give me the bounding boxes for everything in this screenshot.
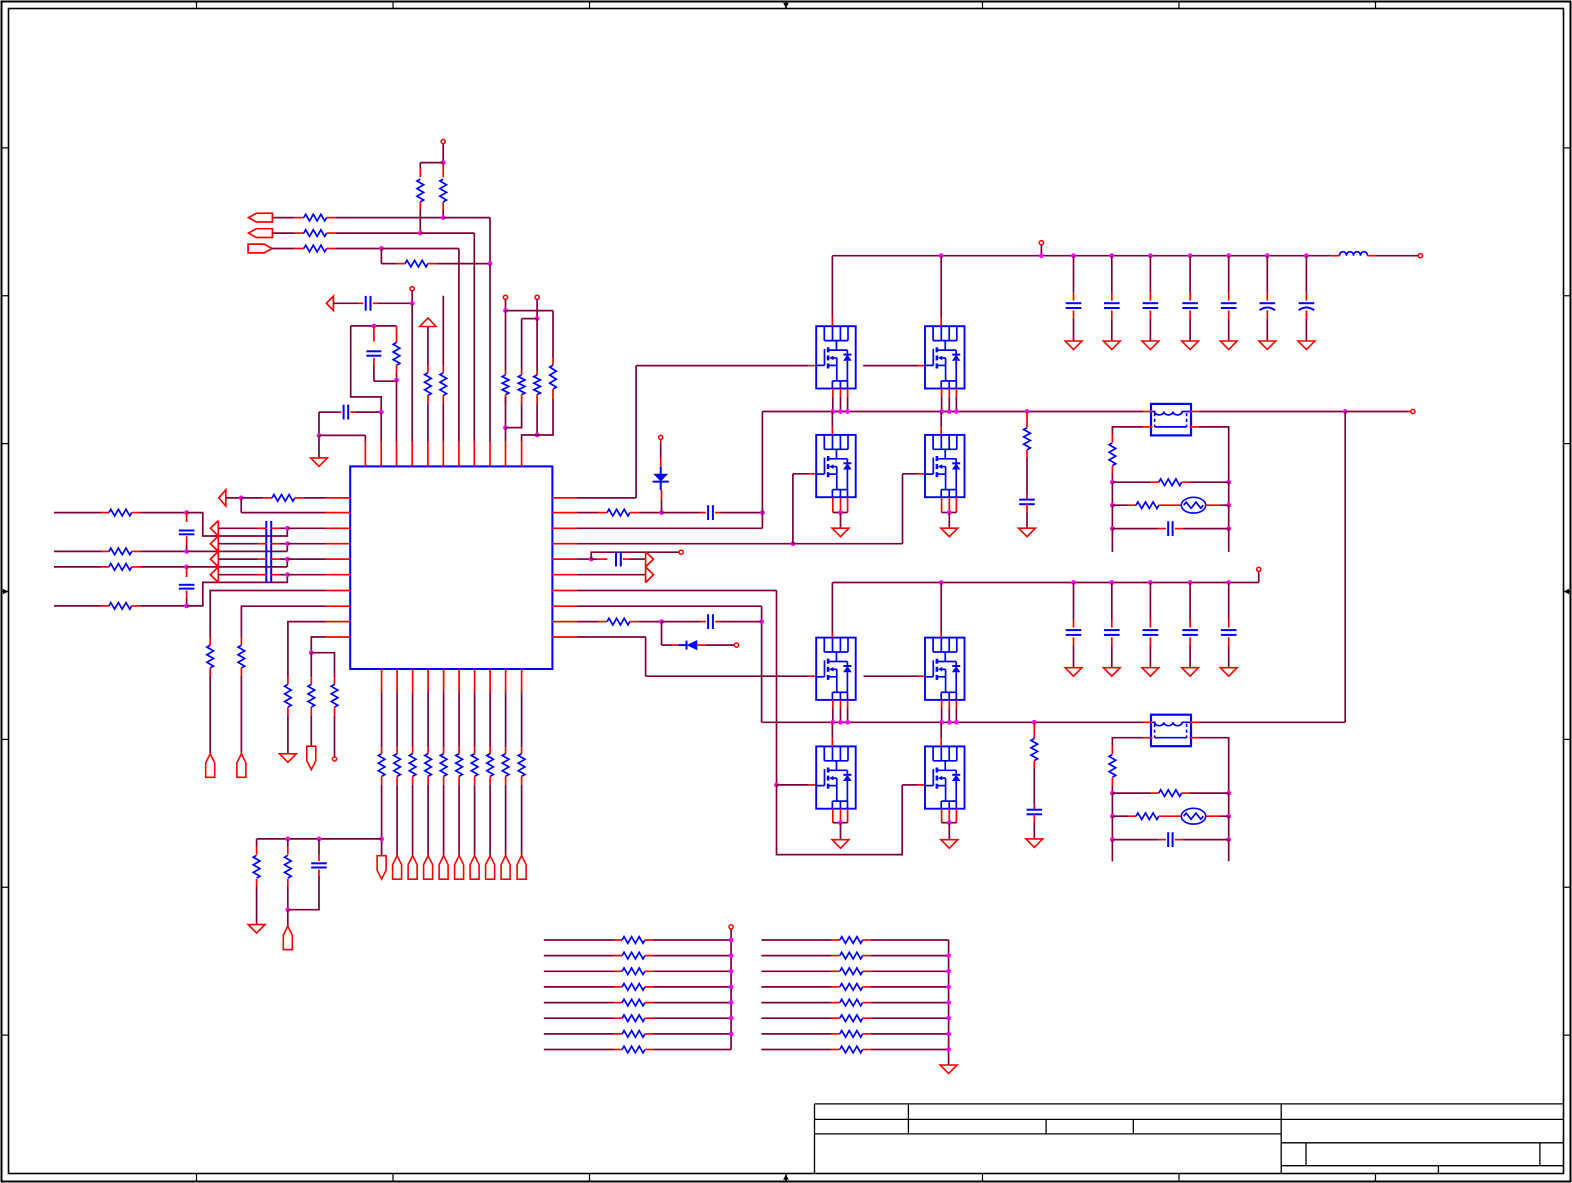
resistor R15 [109, 548, 132, 555]
wire Q7 bar to ground [840, 823, 842, 840]
node Q3 source bar [838, 510, 843, 515]
node row3 junction [379, 246, 384, 251]
wire snub2 col drop 2 [1111, 816, 1113, 839]
transistor Q2 [925, 326, 965, 388]
wire snubber1 leg [1026, 412, 1028, 428]
wire pin R9 to R37 [577, 621, 598, 623]
resistor R17 [109, 603, 132, 610]
wire R17 to node [132, 605, 141, 607]
wire R37 to node [630, 621, 639, 623]
wire C26 right [1175, 839, 1183, 841]
wire MOSFET source pin [948, 389, 950, 397]
wire riser to IC pin 2 [380, 412, 382, 441]
ground under C14 [1182, 341, 1199, 350]
wire R12 bottom to node B2 [536, 395, 538, 405]
wire snub left leg [1111, 435, 1113, 443]
wire array2 row 1 to bus [863, 939, 871, 941]
wire R28 to port P12 [443, 776, 445, 784]
transistor Q8 [925, 746, 965, 808]
wire snub row2 left [1112, 504, 1128, 506]
wire MOSFET source pin row2 [847, 700, 849, 708]
wire R23 to no-connect [334, 707, 336, 715]
wire T1 secondary left [1143, 426, 1153, 428]
node Q8 source bar [947, 820, 952, 825]
node R35/C7 [285, 907, 290, 912]
wire RV2 right [1206, 815, 1220, 817]
wire pin R8 to bottom source row riser [577, 605, 762, 607]
wire snub2 col ends [1111, 840, 1113, 862]
ground G2 [280, 754, 297, 763]
wire C8 to riser node [715, 512, 720, 514]
node source pin row2 [954, 720, 959, 725]
wire array1 row 8 to bus [645, 1049, 653, 1051]
port P15 (bullet) [486, 856, 495, 880]
capacitor C3 [343, 405, 345, 420]
node row B [184, 549, 189, 554]
node row A [184, 510, 189, 515]
wire array2 row 4 to bus [863, 986, 871, 988]
wire snub col ends [1111, 529, 1113, 552]
wire cap C13 leg [1149, 256, 1151, 293]
wire R9 to IC pin 6 [442, 396, 444, 404]
no-connect under R23 [332, 757, 336, 761]
resistor R9 [440, 373, 447, 396]
wire R11 bottom to node A2 [521, 395, 523, 405]
wire input row B [54, 550, 101, 552]
node source pin row2 [947, 720, 952, 725]
node array1 row 3 [729, 969, 734, 974]
wire R18 to IC pin L1 [295, 497, 304, 499]
ground under C24 [1182, 668, 1199, 677]
wire cap C14 leg [1189, 256, 1191, 293]
wire R45 to RV2 [1159, 815, 1182, 817]
node Q7 source bar [838, 820, 843, 825]
resistor R10 [502, 375, 509, 395]
node cap bank C23 [1148, 580, 1153, 585]
ground under C21 [1065, 668, 1082, 677]
wire zener top to no-connect [660, 440, 662, 444]
node source pin [830, 409, 835, 414]
resistor R12 [534, 375, 541, 395]
wire IC bottom pin 7 to R30 [474, 693, 476, 748]
wire snub row1 [1112, 481, 1151, 483]
node cap bank C12 [1109, 253, 1114, 258]
wire R31 to port P15 [489, 776, 491, 784]
transistor Q5 [816, 638, 856, 700]
node source pin [845, 409, 850, 414]
node array2 row 6 [946, 1016, 951, 1021]
wire C14 to ground [1189, 310, 1191, 318]
port triangle above IC [326, 296, 333, 310]
ground under C22 [1103, 668, 1120, 677]
wire to Q7 gate [777, 784, 809, 786]
resistor R25 [394, 754, 401, 777]
loop bottom wire [374, 380, 397, 382]
wire MOSFET source pin [847, 389, 849, 397]
no-connect port B above resistors [535, 295, 539, 299]
resistor R43 [1109, 755, 1116, 778]
resistor R23 [331, 684, 338, 707]
resistor R44 [1159, 790, 1182, 797]
node RC R35 [285, 837, 290, 842]
wire pin R10 to Q5 gate riser [577, 636, 646, 638]
choke T2 [1151, 715, 1191, 747]
wire pin R3 row [577, 527, 762, 529]
port P12 (bullet) [439, 856, 448, 880]
resistor RN1A [622, 937, 645, 944]
node snub2 BL [1110, 837, 1115, 842]
no-connect right of D2 [734, 643, 738, 647]
wire snub row3 left [1112, 528, 1158, 530]
node rail stub [1039, 253, 1044, 258]
resistor R38 [1024, 428, 1031, 450]
wire C10 to riser node [715, 621, 720, 623]
wire IC bottom pin 10 to R33 [521, 693, 523, 748]
wire MOSFET source pin row2 [941, 700, 943, 708]
wire PWR1 to R8 [427, 327, 429, 366]
IC U1 body [350, 466, 552, 669]
wire row to output port [1345, 411, 1408, 413]
wire pin R6 to chevron CH2 [577, 574, 646, 576]
ground under C11 [1065, 341, 1082, 350]
wire MOSFET source pin [955, 389, 957, 397]
loop left wire [351, 326, 382, 412]
node cap bank C24 [1188, 580, 1193, 585]
resistor R27 [425, 754, 432, 777]
chevron pair output wires [218, 527, 257, 529]
wire R35 to node [287, 879, 289, 886]
wire array2 row 7 [761, 1033, 831, 1035]
transistor Q6 [925, 638, 965, 700]
wire R22 to port P7 [310, 707, 312, 715]
wire R15 to node [132, 550, 141, 552]
capacitor C18 [1019, 499, 1035, 501]
no-connect above D1 [659, 435, 663, 439]
ground under C12 [1103, 341, 1120, 350]
resistor R6 (pull-up) [440, 179, 447, 202]
wire cap C25 leg [1228, 583, 1230, 620]
no-connect port above pull-ups [441, 139, 445, 143]
resistor R3 [304, 245, 327, 252]
capacitor C19 [1027, 809, 1043, 811]
wire R38 to C18 [1026, 450, 1028, 458]
wire IC bottom pin 9 to R32 [505, 693, 507, 748]
wire top drain rail [832, 255, 1330, 257]
no-connect stub on rail [1039, 241, 1043, 245]
node source pin row2 [939, 720, 944, 725]
resistor R4 [405, 260, 428, 267]
wire R36 to node [630, 512, 639, 514]
IC U1 right pins [552, 497, 577, 499]
port P1 (arrow flag, row 1) [249, 213, 273, 222]
wire cap C23 leg [1149, 583, 1151, 620]
port P9 (bullet) [393, 856, 402, 880]
wire Q3 bar to ground [840, 513, 842, 529]
wire R24 to node/port P8 [381, 776, 383, 784]
transistor Q3 [816, 435, 856, 497]
ground under Q7 [832, 840, 849, 849]
wire M1 gate row [636, 365, 809, 367]
node T1 right to output [1343, 409, 1348, 414]
node C1 net [410, 301, 415, 306]
node cap bank C11 [1071, 253, 1076, 258]
capacitor array plates [265, 521, 267, 583]
wire R30 to port P14 [474, 776, 476, 784]
resistor RN2B [840, 952, 863, 959]
wire row2 to riser x474 [420, 232, 474, 234]
wire MOSFET source pin row2 [955, 700, 957, 708]
wire R34 to ground G3 [256, 879, 258, 886]
wire P2 to R2 [272, 232, 294, 234]
node cap bank C13 [1148, 253, 1153, 258]
chevron connector CH1 [217, 521, 219, 583]
wire M6 gate row [864, 675, 918, 677]
wire P1 to R1 [272, 217, 294, 219]
wire R42 to RV1 [1159, 504, 1182, 506]
inductor L1 [1340, 252, 1368, 256]
IC U1 bottom pins [381, 669, 383, 693]
resistor R31 [487, 754, 494, 777]
wire R29 to port P13 [458, 776, 460, 784]
ground G15 [1019, 528, 1036, 537]
transistor Q4 [925, 435, 965, 497]
no-connect above array 1 bus [729, 925, 733, 929]
wire C12 to ground [1111, 310, 1113, 318]
wire C23 to ground [1149, 637, 1151, 645]
node R10/R11 bottom [503, 425, 508, 430]
node snub2 ML [1110, 814, 1115, 819]
resistor R37 [607, 618, 630, 625]
wire array1 row 5 to bus [645, 1002, 653, 1004]
wire cap C15 leg [1228, 256, 1230, 293]
port P2 (arrow flag, row 2) [249, 229, 273, 238]
node L10 split [309, 650, 314, 655]
ground G16 [1026, 839, 1043, 848]
ground under C25 [1220, 668, 1237, 677]
resistor R14 [109, 509, 132, 516]
port P11 (bullet) [424, 856, 433, 880]
capacitor C3 row [319, 411, 339, 413]
resistor R2 [304, 230, 327, 237]
wire R25 to port P9 [396, 776, 398, 784]
wire array2 row 3 to bus [863, 970, 871, 972]
node Q4 source bar [947, 510, 952, 515]
node snub ML [1110, 503, 1115, 508]
node B split [535, 316, 540, 321]
resistor R11 [518, 375, 525, 395]
node cap bank C22 [1109, 580, 1114, 585]
wire pin L9 to R21 column [288, 622, 326, 678]
wire Q4 source pins to bar [941, 497, 943, 512]
wire Q2 drain riser [940, 256, 942, 318]
port P8 (bullet down) [377, 856, 386, 880]
wire T2 secondary right [1190, 737, 1199, 739]
wire Q4 drain stub [940, 412, 942, 427]
resistor R33 [518, 754, 525, 777]
wire array1 row 4 [544, 986, 614, 988]
resistor R36 [607, 509, 630, 516]
wire node to port P18 [287, 910, 289, 926]
wire IC bottom pin 6 to R29 [458, 693, 460, 748]
wire A down to R10 [505, 311, 507, 371]
diode D2 [686, 641, 688, 650]
port P18 (bullet) [283, 926, 292, 950]
capacitor C22 [1104, 629, 1120, 631]
wire C13 to ground [1149, 310, 1151, 318]
capacitor C1 [365, 296, 367, 311]
resistor R18 [272, 495, 295, 502]
resistor RN1E [622, 999, 645, 1006]
wire R40 to row1 [1111, 466, 1113, 474]
node cap bank C16 [1265, 253, 1270, 258]
port P6 (bullet) [237, 754, 246, 778]
wire array2 row 1 [761, 939, 831, 941]
wire net row to RC group [257, 838, 382, 840]
node cap bank C15 [1226, 253, 1231, 258]
wire cap C22 leg [1111, 583, 1113, 620]
wire C20 right [1175, 528, 1183, 530]
wire row3 drop to R4 row [380, 249, 382, 264]
wire cap C17 leg [1305, 256, 1307, 293]
node source pin [838, 409, 843, 414]
wire row B to chevron [187, 550, 288, 552]
node row C [184, 565, 189, 570]
node cap bank C21 [1071, 580, 1076, 585]
wire R27 to port P11 [427, 776, 429, 784]
wire P4 to node [226, 497, 241, 499]
wire pin R1 to M1 gate riser [577, 497, 636, 499]
capacitor C15 [1221, 302, 1237, 304]
node zener [659, 510, 664, 515]
resistor R7 [396, 326, 398, 343]
resistor R32 [502, 754, 509, 777]
wire C15 to ground [1228, 310, 1230, 318]
node B2 [535, 433, 540, 438]
capacitor C10 [707, 614, 709, 629]
wire input row C [54, 566, 101, 568]
wire P3 to R3 [272, 248, 295, 250]
capacitor C12 [1104, 302, 1120, 304]
wire C7 leg [318, 839, 320, 856]
wire B to R11 column [522, 318, 538, 320]
wire array1 row 2 to bus [645, 955, 653, 957]
wire rail step to port circle [1258, 571, 1260, 582]
capacitor C7 [311, 862, 327, 864]
resistor RN2D [840, 984, 863, 991]
wire R39 to C19 [1033, 761, 1035, 769]
wire array2 row 7 to bus [863, 1033, 871, 1035]
node R5/row2 [418, 231, 423, 236]
wire node to C8 [662, 512, 701, 514]
node Q6 drain riser [939, 580, 944, 585]
no-connect port A above resistors [503, 295, 507, 299]
wire R33 to port P17 [521, 776, 523, 784]
node source pin [947, 409, 952, 414]
wire to ground G1 [318, 435, 320, 458]
port P17 (bullet) [517, 856, 526, 880]
capacitor C13 [1143, 302, 1159, 304]
capacitor C4 (between rows A,B) [186, 513, 188, 522]
wire node to IC pin 10 [505, 428, 507, 442]
node R8 riser / R37 net [759, 619, 764, 624]
wire R35 leg [287, 839, 289, 847]
resistor R29 [456, 754, 463, 777]
port P14 (bullet) [470, 856, 479, 880]
wire R10 to node [505, 395, 507, 405]
loop top wire [351, 325, 397, 327]
wire row to Q4 gate riser [793, 543, 903, 545]
wire R6 bottom to row 1 [442, 202, 444, 210]
capacitor C23 [1143, 629, 1159, 631]
wire snub2 row3 left [1112, 839, 1158, 841]
wire MOSFET source pin [832, 389, 834, 397]
node R6/row1 [441, 215, 446, 220]
wire IC bottom pin 2 to R25 [396, 693, 398, 748]
wire M2 gate row [863, 365, 917, 367]
wire IC bottom pin 3 to R26 [412, 693, 414, 748]
wire C19 to ground [1033, 814, 1035, 822]
ground under Q3 [832, 528, 849, 537]
ground under C16 [1259, 341, 1276, 350]
node C3/riser [379, 410, 384, 415]
wire C16 to ground [1266, 310, 1268, 318]
resistor RN1G [622, 1031, 645, 1038]
wire Q3 drain stub [831, 412, 833, 427]
wire bottom source row [762, 721, 1143, 723]
wire C21 to ground [1073, 637, 1075, 645]
wire T1 secondary right [1190, 426, 1199, 428]
resistor R39 [1031, 739, 1038, 761]
node source pin [939, 409, 944, 414]
wire cap C12 leg [1111, 256, 1113, 293]
wire array1 row 8 [544, 1049, 614, 1051]
wire RV1 right [1206, 504, 1220, 506]
ground under C13 [1142, 341, 1159, 350]
node diode branch [659, 619, 664, 624]
wire rail to inductor L1 [1330, 255, 1339, 257]
wire array1 row 7 to bus [645, 1033, 653, 1035]
resistor R45 [1136, 813, 1159, 820]
wire array1 row 2 [544, 955, 614, 957]
port P13 (bullet) [455, 856, 464, 880]
node source pin row2 [838, 720, 843, 725]
wire port to C1 [333, 302, 358, 304]
wire cap C11 leg [1073, 256, 1075, 293]
varistor RV1 [1181, 497, 1205, 513]
wire to Q4 gate [903, 473, 918, 475]
resistor RN2H [840, 1046, 863, 1053]
wire snubber2 leg [1033, 722, 1035, 738]
wire R32 to port P16 [505, 776, 507, 784]
wire array2 row 8 to bus [863, 1049, 871, 1051]
wire node up to zener D1 [661, 500, 663, 513]
wire MOSFET source pin [840, 389, 842, 397]
port P7 (bullet down) [307, 746, 316, 770]
resistor R21 [285, 684, 292, 707]
wire C3 left leg down [318, 412, 320, 435]
wire riser to Q3 gate [792, 474, 794, 544]
wire row A to chevron row [187, 513, 288, 536]
wire node to R18 [241, 497, 263, 499]
wire C1 to node [373, 302, 378, 304]
border zone tick marks [196, 2, 198, 9]
node array1 row 6 [729, 1016, 734, 1021]
node array2 row 8 [946, 1047, 951, 1052]
no-connect output circle row1 [1411, 409, 1415, 413]
wire L1 to output circle [1368, 255, 1377, 257]
no-connect circle bottom rail [1257, 567, 1261, 571]
wire array1 row 1 [544, 939, 614, 941]
